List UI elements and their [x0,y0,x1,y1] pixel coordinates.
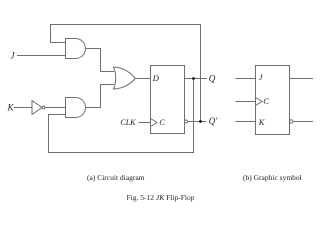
wire G1 output to OR top input [86,49,115,72]
svg-text:D: D [152,73,160,83]
bubble Q' complement [185,120,188,123]
svg-text:J: J [259,72,264,82]
svg-text:(b) Graphic symbol: (b) Graphic symbol [243,173,302,182]
clock triangle U1 [151,119,158,127]
and-gate G2 [66,98,86,118]
svg-text:Q: Q [209,74,216,84]
jk-symbol U2 box [256,66,290,135]
wire Q output U2 [290,78,314,80]
svg-text:Fig. 5-12 JK Flip-Flop: Fig. 5-12 JK Flip-Flop [127,193,195,202]
svg-text:C: C [159,117,165,127]
svg-text:Q′: Q′ [209,116,218,126]
wire inverter to G2 [45,107,66,109]
junction dot Q' feedback [199,120,202,123]
svg-text:J: J [11,51,16,61]
svg-text:CLK: CLK [120,118,136,127]
junction dot Q feedback [192,77,195,80]
clock triangle U2 [256,98,263,106]
d-flip-flop U1 box [151,66,185,134]
wire C clock input U2 [236,101,256,103]
wire Q output [185,78,208,80]
and-gate G1 [66,39,86,59]
wire J input U2 [236,78,256,80]
inverter bubble [42,106,45,109]
wire K input [14,107,32,109]
wire OR output to D input [135,78,150,80]
svg-text:C: C [263,96,269,106]
wire Q' output [188,121,207,123]
wire G2 output to OR bottom input [86,85,115,108]
wire Q' output U2 [293,121,313,123]
or-gate G3 [114,67,136,89]
wire J input [17,55,66,57]
svg-text:K: K [6,103,14,113]
inverter NOT gate [32,101,42,115]
svg-text:K: K [258,117,266,127]
wire Q feedback to G2 bottom input [49,79,194,153]
bubble K output U2 [290,120,293,123]
wire K input U2 [236,121,256,123]
wire Q' feedback to G1 top input [51,25,201,122]
wire CLK input [139,122,151,124]
svg-text:(a) Circuit diagram: (a) Circuit diagram [87,173,145,182]
